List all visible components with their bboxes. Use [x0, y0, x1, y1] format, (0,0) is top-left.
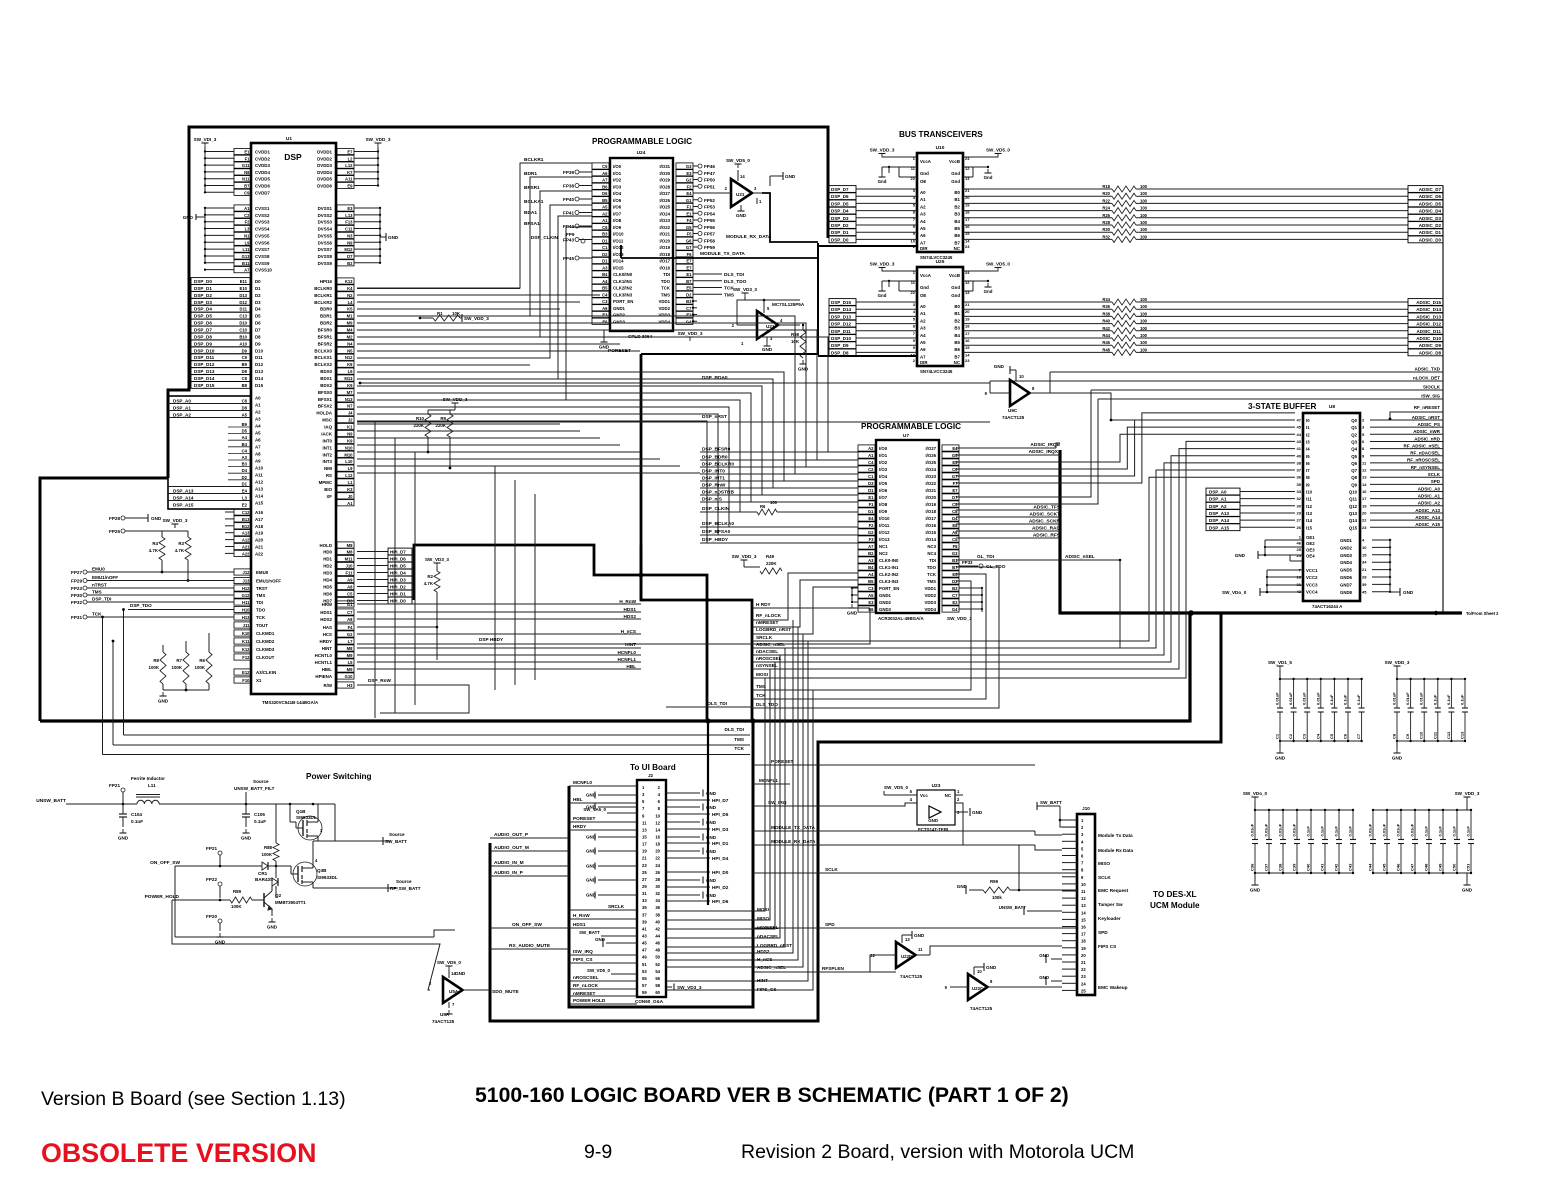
svg-text:BFSR0: BFSR0 — [318, 328, 333, 333]
svg-text:AUDIO_OUT_P: AUDIO_OUT_P — [494, 832, 529, 838]
svg-text:0.1uF: 0.1uF — [1460, 694, 1465, 705]
svg-text:VCC4: VCC4 — [1306, 590, 1318, 595]
svg-text:B1: B1 — [954, 197, 960, 202]
label page number 9-9 — [584, 1141, 612, 1163]
svg-text:ADSIC_D11: ADSIC_D11 — [1416, 329, 1441, 334]
svg-text:A6: A6 — [255, 438, 261, 443]
pins A0-A15 inside U1 — [255, 396, 264, 506]
svg-text:24: 24 — [1081, 981, 1086, 986]
svg-text:0.1uF: 0.1uF — [1356, 694, 1361, 705]
svg-text:D1: D1 — [868, 488, 874, 493]
bus host interface DSP to thick border — [357, 599, 641, 669]
svg-text:G3: G3 — [686, 164, 692, 169]
svg-text:11: 11 — [1081, 889, 1086, 894]
svg-text:GND6: GND6 — [1340, 575, 1353, 580]
svg-text:AUDIO_IN_P: AUDIO_IN_P — [494, 870, 524, 876]
svg-text:A4: A4 — [242, 435, 248, 440]
svg-text:OE4: OE4 — [1306, 554, 1315, 559]
svg-text:I/O31: I/O31 — [659, 164, 670, 169]
svg-text:I13: I13 — [1306, 511, 1313, 516]
svg-text:G2: G2 — [347, 632, 353, 637]
svg-text:100K: 100K — [195, 665, 206, 670]
svg-text:100: 100 — [1140, 333, 1148, 338]
svg-text:I15: I15 — [1306, 525, 1313, 530]
svg-text:DSP_D6: DSP_D6 — [194, 321, 212, 326]
svg-text:PORT_EN: PORT_EN — [879, 586, 899, 591]
svg-text:Revision 2 Board, version with: Revision 2 Board, version with Motorola … — [741, 1141, 1134, 1163]
svg-text:TDO: TDO — [661, 279, 671, 284]
svg-text:N11: N11 — [242, 177, 250, 182]
svg-text:BFSR1: BFSR1 — [318, 334, 333, 339]
svg-text:0.1uF: 0.1uF — [1438, 825, 1443, 836]
svg-text:HRW: HRW — [322, 602, 333, 607]
svg-text:HRDY: HRDY — [320, 639, 333, 644]
svg-text:17: 17 — [642, 842, 647, 847]
svg-text:L12: L12 — [345, 163, 353, 168]
svg-text:ON_OFF_SW: ON_OFF_SW — [512, 922, 542, 928]
svg-text:U1: U1 — [286, 136, 292, 142]
svg-text:10: 10 — [1019, 374, 1024, 379]
svg-text:Gnd: Gnd — [984, 175, 993, 180]
ground rail with DVSS pins U1 — [318, 205, 399, 266]
testpoints FP27 FP29 FP23 FP30 FP32 FP31 with JTAG wires — [71, 567, 234, 621]
svg-text:ISW_SIG: ISW_SIG — [1421, 394, 1440, 399]
svg-text:E4: E4 — [868, 516, 874, 521]
svg-text:SRCLK: SRCLK — [608, 904, 625, 909]
svg-text:D5: D5 — [255, 314, 261, 319]
svg-text:100: 100 — [1140, 198, 1148, 203]
svg-text:CVSS6: CVSS6 — [255, 240, 270, 245]
svg-text:D14: D14 — [255, 376, 264, 381]
svg-text:CLK1-IN1: CLK1-IN1 — [879, 565, 899, 570]
svg-text:HD0: HD0 — [323, 550, 332, 555]
svg-text:43: 43 — [642, 933, 647, 938]
wire U7 outputs to SIOCLK ISW_SIG — [956, 390, 1098, 504]
svg-text:100: 100 — [1140, 227, 1148, 232]
svg-text:CVDD4: CVDD4 — [255, 170, 270, 175]
svg-text:A7: A7 — [920, 240, 926, 245]
svg-text:0.1uF: 0.1uF — [1452, 825, 1457, 836]
svg-text:nMRESET: nMRESET — [756, 620, 779, 625]
svg-text:BIO: BIO — [324, 487, 332, 492]
svg-text:HPI_D2: HPI_D2 — [390, 585, 406, 590]
svg-text:ADSIC_nSEL: ADSIC_nSEL — [756, 642, 785, 647]
svg-text:25: 25 — [1297, 547, 1302, 552]
svg-text:I10: I10 — [1306, 490, 1313, 495]
svg-text:ADSIC_D13: ADSIC_D13 — [1416, 314, 1441, 319]
svg-text:21: 21 — [965, 302, 970, 307]
svg-text:I9: I9 — [1306, 482, 1310, 487]
svg-text:12: 12 — [1362, 468, 1367, 473]
svg-text:B1: B1 — [954, 311, 960, 316]
svg-text:HPI_D1: HPI_D1 — [390, 592, 406, 597]
svg-text:R28: R28 — [1102, 220, 1110, 225]
svg-text:42: 42 — [655, 926, 660, 931]
svg-text:RF_nLOCK: RF_nLOCK — [756, 613, 782, 618]
svg-text:G12: G12 — [242, 593, 251, 598]
svg-text:38: 38 — [1297, 460, 1302, 465]
svg-text:ADSIC_PS: ADSIC_PS — [1417, 422, 1440, 427]
capacitor C104 — [118, 804, 143, 841]
svg-text:CLKMD1: CLKMD1 — [256, 631, 275, 636]
svg-text:A5: A5 — [920, 226, 926, 231]
svg-text:C46: C46 — [1396, 863, 1401, 871]
svg-text:A11: A11 — [255, 473, 263, 478]
svg-text:16: 16 — [1081, 925, 1086, 930]
svg-text:SW_VD5_0: SW_VD5_0 — [986, 262, 1010, 267]
svg-text:I2: I2 — [1306, 432, 1310, 437]
svg-text:C2: C2 — [868, 467, 874, 472]
svg-text:12: 12 — [655, 820, 660, 825]
svg-text:DSP_D5: DSP_D5 — [831, 201, 849, 206]
svg-text:DSP_TDI: DSP_TDI — [92, 597, 111, 602]
svg-text:C4: C4 — [868, 460, 874, 465]
svg-text:0.1uF: 0.1uF — [1466, 825, 1471, 836]
svg-text:19: 19 — [1081, 946, 1086, 951]
svg-text:DSP_D2: DSP_D2 — [831, 223, 849, 228]
svg-text:C9: C9 — [1405, 733, 1410, 739]
resistor R4 R3 pullups — [149, 518, 191, 582]
svg-text:I/O7: I/O7 — [613, 211, 622, 216]
buffer U9C 74ACT125 — [985, 364, 1050, 420]
svg-text:SW_VDD_3: SW_VDD_3 — [870, 148, 895, 153]
svg-text:HRDY: HRDY — [573, 824, 587, 829]
svg-text:I/O0: I/O0 — [613, 164, 622, 169]
svg-text:A12: A12 — [255, 480, 264, 485]
svg-text:CLK2/IN2: CLK2/IN2 — [613, 286, 633, 291]
svg-text:L13: L13 — [345, 213, 353, 218]
svg-text:H_nCS: H_nCS — [621, 629, 636, 634]
svg-text:RX_AUDIO_MUTE: RX_AUDIO_MUTE — [509, 943, 551, 949]
svg-text:0.1uF: 0.1uF — [1432, 694, 1437, 705]
svg-text:B2: B2 — [954, 204, 960, 209]
svg-text:FP52: FP52 — [704, 198, 715, 203]
svg-text:SW_VDD_3: SW_VDD_3 — [870, 262, 895, 267]
svg-text:B10: B10 — [239, 334, 247, 339]
svg-text:J10: J10 — [346, 564, 354, 569]
svg-text:CLKMD3: CLKMD3 — [256, 647, 275, 652]
wires UNSW_BATT and GND to J10 — [999, 905, 1062, 985]
svg-text:E7: E7 — [686, 265, 692, 270]
svg-text:C6: C6 — [1343, 733, 1348, 739]
svg-text:GND: GND — [1392, 756, 1403, 761]
svg-text:M8: M8 — [347, 550, 353, 555]
svg-text:DSP_nRST: DSP_nRST — [702, 414, 727, 420]
wire ON_OFF_SW POWER_HOLD runs to right — [172, 866, 455, 990]
svg-text:17: 17 — [965, 331, 970, 336]
svg-text:BCLKX1: BCLKX1 — [314, 355, 332, 360]
svg-text:R34: R34 — [1102, 297, 1110, 302]
svg-text:TDI: TDI — [663, 272, 670, 277]
svg-text:44: 44 — [1297, 432, 1302, 437]
svg-text:74ACT16244 A: 74ACT16244 A — [1312, 604, 1343, 609]
svg-text:C105: C105 — [254, 812, 265, 817]
svg-text:K11: K11 — [242, 639, 250, 644]
svg-text:Vcc: Vcc — [920, 793, 928, 798]
svg-text:A5: A5 — [920, 340, 926, 345]
svg-text:GND2: GND2 — [1340, 545, 1353, 550]
svg-text:N7: N7 — [347, 404, 353, 409]
svg-text:FP21: FP21 — [109, 783, 120, 788]
svg-text:I/O26: I/O26 — [925, 453, 936, 458]
label revision note — [741, 1141, 1134, 1163]
svg-text:GND8: GND8 — [1340, 590, 1353, 595]
svg-text:16: 16 — [965, 338, 970, 343]
svg-text:DVSS4: DVSS4 — [318, 227, 333, 232]
svg-text:FCTS14T-TEBL: FCTS14T-TEBL — [918, 827, 950, 832]
junction dots on thick lines — [639, 573, 1439, 724]
svg-text:I/O5: I/O5 — [613, 198, 622, 203]
svg-text:74ACT125: 74ACT125 — [432, 1019, 455, 1024]
svg-text:B0: B0 — [954, 190, 960, 195]
svg-text:R22: R22 — [1102, 198, 1110, 203]
svg-text:30: 30 — [655, 884, 660, 889]
svg-text:M8: M8 — [347, 646, 353, 651]
svg-text:B3: B3 — [686, 299, 692, 304]
svg-text:DLS_TDO: DLS_TDO — [724, 279, 747, 285]
svg-text:POWER HOLD: POWER HOLD — [573, 998, 606, 1003]
svg-text:I/O8: I/O8 — [613, 218, 622, 223]
svg-text:C40: C40 — [1306, 863, 1311, 871]
svg-text:C38: C38 — [1278, 863, 1283, 871]
svg-text:FP39: FP39 — [563, 170, 574, 175]
svg-text:D13: D13 — [239, 293, 247, 298]
svg-text:TDO: TDO — [256, 608, 266, 613]
wires J2 right rows up to control bus — [666, 620, 813, 990]
svg-text:D15: D15 — [255, 383, 264, 388]
bus DSP_D0-D15 net label boxes at U1 — [191, 278, 264, 389]
svg-text:DSP_D12: DSP_D12 — [831, 322, 852, 327]
svg-text:M9: M9 — [347, 321, 353, 326]
svg-text:A7: A7 — [920, 354, 926, 359]
svg-text:XF: XF — [326, 494, 332, 499]
svg-text:21: 21 — [1081, 960, 1086, 965]
pins JTAG control left side U1 — [234, 569, 281, 683]
wires J2 left side signals — [569, 780, 637, 996]
svg-text:VDD2: VDD2 — [925, 593, 937, 598]
svg-text:C43: C43 — [1348, 863, 1353, 871]
svg-text:DSP_D10: DSP_D10 — [194, 348, 215, 353]
svg-text:RF_nSYNSEL: RF_nSYNSEL — [1411, 465, 1441, 470]
svg-text:14: 14 — [1081, 910, 1086, 915]
svg-text:OE: OE — [920, 179, 926, 184]
label Version B Board — [41, 1088, 346, 1110]
svg-text:37: 37 — [642, 912, 647, 917]
svg-text:RF_SW_BATT: RF_SW_BATT — [390, 886, 421, 891]
svg-text:R89: R89 — [233, 889, 242, 894]
svg-text:B9: B9 — [242, 362, 248, 367]
svg-text:C9: C9 — [242, 355, 248, 360]
svg-text:GND: GND — [455, 971, 466, 976]
svg-text:A1: A1 — [255, 403, 261, 408]
svg-text:45: 45 — [642, 941, 647, 946]
svg-text:B4: B4 — [954, 333, 960, 338]
svg-text:M13: M13 — [344, 376, 353, 381]
svg-text:K9: K9 — [347, 383, 353, 388]
svg-text:34: 34 — [1362, 560, 1367, 565]
svg-text:14: 14 — [655, 827, 660, 832]
power rail SW_VDD_3 with DVDD pins U1 — [317, 137, 391, 189]
svg-text:FP56: FP56 — [704, 225, 715, 230]
svg-text:D11: D11 — [240, 307, 248, 312]
svg-text:I/O25: I/O25 — [659, 205, 670, 210]
svg-text:DSP_D3: DSP_D3 — [194, 300, 212, 305]
svg-text:A3/CLKIN: A3/CLKIN — [256, 670, 276, 675]
svg-text:R8: R8 — [153, 658, 159, 663]
svg-text:H3: H3 — [347, 683, 353, 688]
svg-text:53: 53 — [642, 969, 647, 974]
svg-text:C2: C2 — [244, 213, 250, 218]
svg-text:0.1uF: 0.1uF — [1306, 825, 1311, 836]
svg-text:B3: B3 — [954, 326, 960, 331]
svg-text:MMBT3904TT1: MMBT3904TT1 — [275, 900, 306, 905]
svg-text:FP53: FP53 — [704, 205, 715, 210]
svg-text:Source: Source — [389, 832, 405, 837]
svg-text:GND4: GND4 — [1340, 560, 1353, 565]
svg-text:0.01uF: 0.01uF — [1396, 823, 1401, 836]
svg-text:GND1: GND1 — [613, 306, 626, 311]
svg-text:A3: A3 — [920, 326, 926, 331]
svg-text:VccB: VccB — [949, 273, 960, 278]
svg-text:A7: A7 — [255, 445, 261, 450]
svg-text:28: 28 — [1362, 575, 1367, 580]
svg-text:ADSIC_TXD: ADSIC_TXD — [1414, 367, 1440, 372]
svg-text:Gnd: Gnd — [951, 285, 960, 290]
svg-text:FP40: FP40 — [563, 197, 574, 202]
svg-text:A3: A3 — [920, 212, 926, 217]
svg-text:SW_VDD_3: SW_VDD_3 — [366, 137, 391, 142]
svg-text:A1: A1 — [244, 206, 250, 211]
ground and power taps U7 — [847, 587, 983, 616]
svg-text:A9: A9 — [255, 459, 261, 464]
svg-text:DVDD6: DVDD6 — [317, 184, 332, 189]
svg-text:GND1: GND1 — [879, 593, 892, 598]
svg-text:HPI_D7: HPI_D7 — [390, 550, 406, 555]
svg-text:R32: R32 — [1102, 234, 1110, 239]
svg-text:9-9: 9-9 — [584, 1141, 612, 1163]
svg-text:E12: E12 — [242, 670, 250, 675]
svg-text:B11: B11 — [242, 261, 250, 266]
svg-text:24: 24 — [1297, 553, 1302, 558]
svg-text:100: 100 — [1140, 297, 1148, 302]
svg-text:A1: A1 — [347, 501, 353, 506]
svg-text:B2: B2 — [868, 551, 874, 556]
svg-text:RF_nLOCK: RF_nLOCK — [573, 983, 599, 988]
svg-text:DLS_TDI: DLS_TDI — [724, 272, 745, 278]
svg-text:A4: A4 — [868, 572, 874, 577]
svg-text:N3: N3 — [347, 233, 353, 238]
svg-text:15: 15 — [1362, 552, 1367, 557]
buffer U22C 74ACT125 — [945, 963, 1062, 1011]
svg-text:B0: B0 — [954, 304, 960, 309]
svg-text:SW_VDD_3: SW_VDD_3 — [1385, 660, 1410, 665]
svg-text:D2: D2 — [242, 475, 248, 480]
svg-text:CVDD5: CVDD5 — [255, 177, 270, 182]
svg-text:A7: A7 — [244, 268, 250, 273]
svg-text:ADSIC_D0: ADSIC_D0 — [1419, 237, 1442, 242]
svg-text:I/O23: I/O23 — [925, 474, 936, 479]
wire MODULE_RX_DATA from U21 — [726, 193, 818, 242]
svg-text:Version B Board (see Section 1: Version B Board (see Section 1.13) — [41, 1088, 346, 1110]
svg-text:FP30: FP30 — [71, 593, 82, 598]
svg-text:100: 100 — [1140, 311, 1148, 316]
svg-text:51: 51 — [642, 962, 647, 967]
label sheet title — [475, 1084, 1069, 1107]
svg-text:A10: A10 — [255, 466, 264, 471]
svg-text:DSP_HBDY: DSP_HBDY — [702, 537, 729, 543]
svg-text:DSP_A2: DSP_A2 — [1209, 504, 1227, 509]
svg-text:NC: NC — [945, 793, 952, 798]
svg-text:B12: B12 — [242, 524, 250, 529]
svg-text:EMC Wakeup: EMC Wakeup — [1098, 985, 1128, 990]
svg-text:100K: 100K — [172, 665, 183, 670]
svg-text:RF_ADSIC_nSEL: RF_ADSIC_nSEL — [1403, 443, 1440, 448]
svg-text:UNSW_BATT: UNSW_BATT — [999, 905, 1027, 910]
bus control signals right of J2 — [752, 441, 1295, 708]
svg-text:22: 22 — [1081, 967, 1086, 972]
ic U25 bus transceiver SN74LVCC3245 — [870, 259, 1011, 374]
svg-text:Q6: Q6 — [1351, 461, 1357, 466]
svg-text:28: 28 — [655, 877, 660, 882]
svg-text:GND: GND — [928, 818, 938, 823]
svg-text:CLK3-IN3: CLK3-IN3 — [879, 579, 899, 584]
svg-text:C7: C7 — [1356, 733, 1361, 739]
svg-text:0.01uF: 0.01uF — [1288, 692, 1293, 705]
wire SW_BATT source — [318, 832, 407, 845]
svg-text:48: 48 — [655, 948, 660, 953]
svg-text:G2: G2 — [868, 530, 874, 535]
svg-text:26: 26 — [1297, 525, 1302, 530]
svg-text:Keyloader: Keyloader — [1098, 916, 1121, 921]
svg-text:D8: D8 — [242, 369, 248, 374]
svg-text:C104: C104 — [131, 812, 142, 817]
svg-text:CLK1/IN1: CLK1/IN1 — [613, 279, 633, 284]
svg-text:MISO: MISO — [1098, 861, 1110, 866]
svg-text:E4: E4 — [242, 488, 248, 493]
svg-text:FP9: FP9 — [566, 232, 575, 237]
svg-text:H RDY: H RDY — [756, 602, 771, 607]
svg-text:0.01uF: 0.01uF — [1410, 823, 1415, 836]
svg-text:74ACT125: 74ACT125 — [970, 1006, 993, 1011]
ic U10 bus transceiver SN74LVCC3245 — [870, 130, 1011, 260]
svg-text:A2: A2 — [602, 211, 608, 216]
resistor R88 100K — [262, 804, 280, 867]
svg-text:E3: E3 — [602, 313, 608, 318]
svg-text:GND3: GND3 — [1340, 553, 1353, 558]
buffer U22D 74ACT125 — [870, 931, 1062, 979]
svg-text:BCLKR0: BCLKR0 — [314, 286, 332, 291]
svg-text:VDD3: VDD3 — [659, 313, 671, 318]
resistor R1 10K — [419, 311, 490, 322]
svg-text:AUDIO_OUT_M: AUDIO_OUT_M — [494, 845, 529, 851]
svg-text:ADSIC_A0: ADSIC_A0 — [1418, 486, 1441, 491]
svg-text:FP41: FP41 — [563, 211, 574, 216]
svg-text:BAR43S: BAR43S — [255, 877, 273, 882]
power SW_VDD_3 and ground at U24 — [599, 300, 703, 350]
svg-text:A3: A3 — [242, 455, 248, 460]
svg-text:HD4: HD4 — [323, 578, 332, 583]
svg-text:C7: C7 — [952, 593, 958, 598]
svg-text:ADSIC_D10: ADSIC_D10 — [1416, 336, 1441, 341]
svg-text:SW_VD5_0: SW_VD5_0 — [726, 158, 750, 163]
wire thick HPI vertical right of J2 — [707, 721, 709, 905]
svg-text:GND: GND — [1403, 590, 1414, 595]
wire RFSPLEN to U22D — [870, 955, 896, 972]
svg-text:I/O11: I/O11 — [613, 238, 624, 243]
svg-text:Q2: Q2 — [275, 893, 282, 898]
svg-text:To/From Sheet 2: To/From Sheet 2 — [1466, 611, 1499, 616]
svg-text:A7: A7 — [602, 178, 608, 183]
